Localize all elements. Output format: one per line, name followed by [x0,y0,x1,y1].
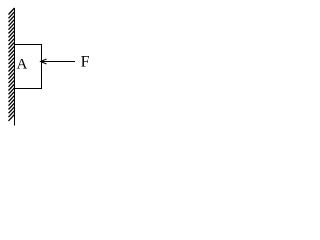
svg-text:A: A [17,56,28,72]
svg-text:F: F [81,54,90,71]
